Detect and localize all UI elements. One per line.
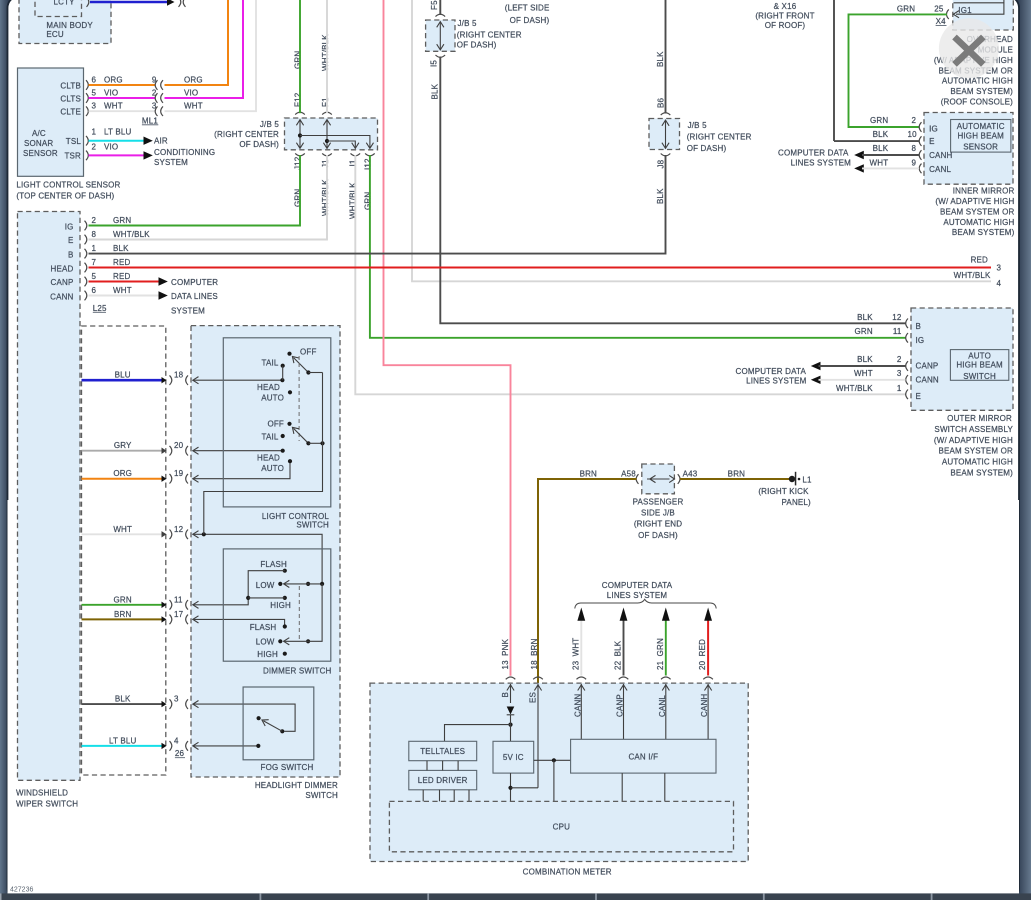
svg-text:ORG: ORG bbox=[184, 76, 203, 85]
svg-text:AUTO: AUTO bbox=[261, 394, 284, 403]
svg-text:E: E bbox=[68, 236, 74, 245]
svg-text:OF DASH): OF DASH) bbox=[457, 40, 497, 49]
svg-text:DIMMER SWITCH: DIMMER SWITCH bbox=[263, 667, 332, 676]
svg-text:HIGH BEAM: HIGH BEAM bbox=[957, 131, 1004, 140]
wire CANP red stub to computer data lines bbox=[89, 277, 168, 285]
svg-text:BLK: BLK bbox=[873, 144, 889, 153]
svg-text:12: 12 bbox=[174, 525, 184, 534]
svg-text:3: 3 bbox=[997, 264, 1002, 273]
svg-text:VIO: VIO bbox=[104, 89, 118, 98]
svg-text:E: E bbox=[916, 392, 922, 401]
outer mirror switch assembly box bbox=[906, 308, 1013, 410]
svg-text:ES: ES bbox=[529, 692, 538, 703]
wire GRN 25 overhead module to high beam sensor IG bbox=[849, 5, 948, 127]
svg-text:6: 6 bbox=[92, 76, 97, 85]
svg-text:8: 8 bbox=[92, 230, 97, 239]
bottom toolbar bbox=[0, 893, 1031, 900]
svg-text:SONAR: SONAR bbox=[24, 139, 53, 148]
svg-text:COMBINATION METER: COMBINATION METER bbox=[523, 867, 612, 876]
svg-text:OF DASH): OF DASH) bbox=[239, 140, 279, 149]
J/B5 no.1 internal bus F1 to J1/I1 bbox=[323, 120, 359, 149]
svg-text:FLASH: FLASH bbox=[260, 560, 287, 569]
wire BLK CANP stub outer mirror bbox=[811, 355, 906, 370]
svg-text:LINES SYSTEM: LINES SYSTEM bbox=[746, 377, 807, 386]
svg-text:LIGHT CONTROL SENSOR: LIGHT CONTROL SENSOR bbox=[16, 181, 120, 190]
svg-text:6: 6 bbox=[92, 286, 97, 295]
svg-text:SWITCH: SWITCH bbox=[296, 521, 329, 530]
svg-text:WHT: WHT bbox=[113, 525, 132, 534]
junction block J/B 5 no.3 (middle) bbox=[649, 97, 752, 168]
svg-text:LT BLU: LT BLU bbox=[109, 736, 137, 745]
svg-text:SWITCH: SWITCH bbox=[305, 791, 338, 800]
svg-text:BLK: BLK bbox=[656, 51, 665, 67]
svg-text:I5: I5 bbox=[430, 60, 439, 67]
svg-text:WHT/BLK: WHT/BLK bbox=[113, 230, 150, 239]
svg-text:CANN: CANN bbox=[573, 694, 582, 717]
svg-text:WHT: WHT bbox=[184, 102, 203, 111]
svg-text:PANEL): PANEL) bbox=[782, 498, 812, 507]
svg-text:CANL: CANL bbox=[658, 695, 667, 717]
wire GRN pin11 dimmer switch bbox=[82, 595, 249, 609]
svg-text:SIDE J/B: SIDE J/B bbox=[641, 509, 675, 518]
svg-text:RED: RED bbox=[113, 258, 130, 267]
svg-text:CONDITIONING: CONDITIONING bbox=[154, 148, 215, 157]
svg-text:(TOP CENTER OF DASH): (TOP CENTER OF DASH) bbox=[16, 191, 114, 200]
svg-text:(RIGHT FRONT: (RIGHT FRONT bbox=[755, 12, 814, 21]
light control switch mechanical link 1 bbox=[298, 356, 300, 441]
svg-text:7: 7 bbox=[92, 258, 97, 267]
junction block J/B 5 no.1 (right center of dash) bbox=[214, 112, 377, 155]
svg-text:L1: L1 bbox=[802, 475, 812, 484]
wire BLK pin3 fog switch bbox=[82, 695, 296, 732]
svg-text:MAIN BODY: MAIN BODY bbox=[46, 21, 93, 30]
svg-text:BLK: BLK bbox=[656, 188, 665, 204]
svg-text:1: 1 bbox=[92, 127, 97, 136]
svg-text:21 GRN: 21 GRN bbox=[656, 638, 665, 670]
wire LT BLU pin4 fog switch bbox=[82, 736, 259, 750]
svg-text:IG: IG bbox=[65, 222, 74, 231]
svg-text:WIPER SWITCH: WIPER SWITCH bbox=[16, 800, 78, 809]
svg-text:2: 2 bbox=[92, 143, 97, 152]
light control switch common feed line bbox=[204, 373, 323, 535]
svg-text:LOW: LOW bbox=[256, 581, 275, 590]
wire BLK CANH stub high beam sensor bbox=[854, 144, 919, 159]
svg-text:IG: IG bbox=[929, 125, 938, 134]
passenger side J/B box bbox=[633, 464, 684, 540]
svg-text:9: 9 bbox=[912, 159, 917, 168]
svg-text:AUTOMATIC HIGH: AUTOMATIC HIGH bbox=[942, 458, 1013, 467]
telltales box bbox=[409, 741, 477, 760]
close (X) button overlay bbox=[939, 18, 999, 78]
fog switch contacts bbox=[256, 716, 284, 748]
svg-text:CANP: CANP bbox=[916, 362, 939, 371]
svg-text:ORG: ORG bbox=[104, 76, 123, 85]
svg-text:17: 17 bbox=[174, 610, 184, 619]
svg-text:(RIGHT CENTER: (RIGHT CENTER bbox=[214, 130, 279, 139]
wire PNK to combination meter pin B bbox=[384, 0, 511, 676]
svg-text:SWITCH ASSEMBLY: SWITCH ASSEMBLY bbox=[934, 425, 1013, 434]
svg-text:CANP: CANP bbox=[51, 278, 74, 287]
wire TSL lt blu pin1 to A/C system bbox=[89, 127, 153, 145]
caption outer mirror switch assembly bbox=[934, 414, 1014, 477]
CAN I/F to cpu links bbox=[622, 773, 665, 801]
overhead module box bbox=[934, 0, 1013, 107]
windshield wiper switch box bbox=[16, 212, 87, 809]
svg-text:J/B 5: J/B 5 bbox=[458, 19, 478, 28]
headlight dimmer switch box bbox=[191, 326, 340, 800]
light control switch box bbox=[223, 338, 330, 530]
wire WHT/BLK to right edge pin 4 bbox=[412, 0, 1002, 288]
svg-text:COMPUTER DATA: COMPUTER DATA bbox=[736, 367, 807, 376]
fog switch box bbox=[243, 687, 314, 772]
light control switch wafer 2 contacts bbox=[257, 420, 325, 474]
svg-text:18: 18 bbox=[174, 371, 184, 380]
telltales to led driver links bbox=[427, 761, 458, 771]
dimmer switch box bbox=[223, 549, 331, 676]
svg-text:A/C: A/C bbox=[32, 129, 46, 138]
meter pin entry arrows bbox=[507, 684, 712, 788]
wire CLTB orange pin6 to ML1 pin9 bbox=[89, 0, 229, 90]
wire BLK above J/B5 no.3 bbox=[656, 0, 666, 114]
svg-text:20 RED: 20 RED bbox=[698, 639, 707, 670]
svg-text:13 PNK: 13 PNK bbox=[501, 638, 510, 669]
wire label 13 PNK pin B bbox=[501, 638, 515, 679]
wire WHT/BLK above J/B5 no.1 bbox=[321, 0, 330, 113]
svg-text:OFF: OFF bbox=[267, 420, 284, 429]
svg-text:OUTER MIRROR: OUTER MIRROR bbox=[947, 414, 1012, 423]
svg-text:CANH: CANH bbox=[700, 694, 709, 717]
node B junction to telltales bbox=[445, 715, 513, 742]
svg-text:J8: J8 bbox=[656, 159, 665, 168]
svg-text:WHT/BLK: WHT/BLK bbox=[321, 179, 330, 216]
A/C sonar sensor box bbox=[18, 68, 89, 176]
CPU box bbox=[389, 801, 733, 851]
wire WHT pin12 dimmer feed bbox=[82, 525, 323, 584]
svg-text:BRN: BRN bbox=[114, 610, 131, 619]
led driver to cpu links bbox=[423, 790, 469, 802]
wire BLK pin22 CANP bbox=[614, 608, 629, 680]
svg-text:FOG SWITCH: FOG SWITCH bbox=[261, 763, 314, 772]
svg-text:ML1: ML1 bbox=[142, 116, 158, 125]
svg-text:HIGH: HIGH bbox=[270, 601, 291, 610]
junction block J/B 5 no.2 (upper middle) bbox=[426, 0, 522, 67]
diode D1 on B line bbox=[507, 707, 515, 715]
svg-text:GRY: GRY bbox=[114, 441, 132, 450]
5V IC box bbox=[493, 741, 534, 773]
wire RED pin20 CANH bbox=[698, 608, 713, 680]
svg-text:CPU: CPU bbox=[553, 823, 570, 832]
wire label 18 BRN pin ES bbox=[530, 638, 543, 679]
svg-text:19: 19 bbox=[174, 469, 184, 478]
svg-text:CLTB: CLTB bbox=[60, 81, 81, 90]
svg-text:TSL: TSL bbox=[66, 137, 82, 146]
CAN I/F box bbox=[571, 739, 716, 773]
node air conditioning system bbox=[154, 137, 215, 168]
svg-text:GRN: GRN bbox=[113, 216, 131, 225]
svg-text:B6: B6 bbox=[656, 97, 665, 108]
svg-text:CANN: CANN bbox=[916, 376, 939, 385]
svg-text:AUTOMATIC HIGH: AUTOMATIC HIGH bbox=[943, 218, 1014, 227]
wire GRY pin20 light control switch bbox=[82, 441, 283, 455]
light control switch wafer 1 contacts bbox=[257, 348, 322, 403]
svg-text:3: 3 bbox=[174, 695, 179, 704]
svg-text:HIGH: HIGH bbox=[257, 650, 278, 659]
svg-text:20: 20 bbox=[174, 441, 184, 450]
svg-text:CLTS: CLTS bbox=[60, 94, 81, 103]
wire BLK to X16 right front of roof bbox=[755, 0, 834, 141]
wire BLK wiper switch B pin through J8 bbox=[89, 155, 666, 254]
wire BLK roof to high beam sensor E bbox=[834, 140, 919, 142]
svg-text:TSR: TSR bbox=[64, 152, 81, 161]
svg-text:A43: A43 bbox=[683, 469, 698, 478]
label WHT/BLK 1 pin E bbox=[836, 384, 902, 393]
svg-text:BEAM SYSTEM): BEAM SYSTEM) bbox=[950, 468, 1013, 477]
svg-text:BLK: BLK bbox=[430, 83, 439, 99]
dimmer switch wafer 1 contacts bbox=[246, 560, 324, 610]
svg-text:GRN: GRN bbox=[114, 595, 132, 604]
svg-text:BEAM SYSTEM OR: BEAM SYSTEM OR bbox=[940, 207, 1015, 216]
svg-text:& X16: & X16 bbox=[774, 2, 797, 11]
label left side of dash bbox=[505, 3, 550, 25]
wire BRN A43 to L1 right kick panel bbox=[680, 469, 789, 479]
svg-text:ECU: ECU bbox=[46, 30, 63, 39]
svg-text:SWITCH: SWITCH bbox=[963, 372, 996, 381]
wire TSR violet pin2 to A/C system bbox=[89, 143, 153, 160]
svg-text:VIO: VIO bbox=[104, 143, 118, 152]
wire LCTY blue bbox=[90, 0, 186, 7]
svg-text:HEADLIGHT DIMMER: HEADLIGHT DIMMER bbox=[255, 781, 338, 790]
svg-text:22 BLK: 22 BLK bbox=[614, 640, 623, 670]
meter internal pin names bbox=[501, 692, 709, 717]
wire number labels wiper switch pins bbox=[92, 216, 151, 295]
svg-text:SYSTEM: SYSTEM bbox=[171, 306, 205, 315]
svg-text:10: 10 bbox=[908, 130, 918, 139]
wire BLK from I5 to outer mirror B pin bbox=[430, 57, 905, 324]
wire labels GRN 2 / BLK 10 high beam sensor bbox=[870, 116, 917, 139]
svg-text:COMPUTER DATA: COMPUTER DATA bbox=[602, 581, 673, 590]
connector ML1 bbox=[142, 116, 158, 125]
wire labels BLK 12 / GRN 11 outer mirror bbox=[854, 313, 901, 336]
svg-text:11: 11 bbox=[174, 595, 183, 604]
svg-text:F1: F1 bbox=[321, 97, 330, 107]
svg-text:LED DRIVER: LED DRIVER bbox=[418, 776, 468, 785]
wire BRN pin17 dimmer switch bbox=[82, 610, 285, 627]
svg-text:2: 2 bbox=[912, 116, 917, 125]
wire WHT/BLK from J1 to wiper switch E pin bbox=[89, 155, 330, 240]
svg-text:B: B bbox=[916, 322, 922, 331]
svg-text:WHT: WHT bbox=[104, 102, 123, 111]
svg-text:OF DASH): OF DASH) bbox=[687, 144, 727, 153]
svg-text:HIGH BEAM: HIGH BEAM bbox=[956, 361, 1003, 370]
wire BLK above J/B5 no.2 bbox=[439, 0, 441, 15]
svg-text:AUTOMATIC HIGH: AUTOMATIC HIGH bbox=[942, 77, 1013, 86]
svg-text:OFF: OFF bbox=[300, 348, 317, 357]
svg-text:GRN: GRN bbox=[870, 116, 888, 125]
svg-text:1: 1 bbox=[897, 384, 902, 393]
svg-text:AUTO: AUTO bbox=[261, 464, 284, 473]
svg-text:J1: J1 bbox=[321, 159, 330, 168]
svg-text:AUTO: AUTO bbox=[968, 352, 991, 361]
svg-text:DATA LINES: DATA LINES bbox=[171, 292, 218, 301]
svg-text:I12: I12 bbox=[363, 158, 372, 170]
svg-text:26: 26 bbox=[175, 749, 185, 758]
svg-text:OF DASH): OF DASH) bbox=[510, 16, 550, 25]
wire GRN from I12 to outer mirror IG pin bbox=[363, 155, 905, 338]
svg-text:HEAD: HEAD bbox=[257, 453, 280, 462]
svg-text:J/B 5: J/B 5 bbox=[260, 120, 280, 129]
svg-text:GRN: GRN bbox=[854, 327, 872, 336]
connector X4 label bbox=[936, 17, 947, 26]
connector L25 bbox=[93, 304, 107, 313]
automatic high beam sensor box bbox=[919, 113, 1013, 185]
splice L1 bbox=[758, 472, 812, 507]
svg-text:WHT: WHT bbox=[113, 286, 132, 295]
svg-text:5: 5 bbox=[92, 272, 97, 281]
combination meter box bbox=[370, 683, 748, 876]
svg-text:427236: 427236 bbox=[10, 887, 33, 894]
caption light control sensor bbox=[16, 181, 120, 201]
svg-text:GRN: GRN bbox=[363, 192, 372, 210]
svg-text:SENSOR: SENSOR bbox=[23, 149, 58, 158]
node computer data lines system (inner mirror) bbox=[778, 148, 851, 167]
wire GRN above J/B5 no.1 bbox=[293, 0, 302, 113]
svg-text:BLK: BLK bbox=[113, 244, 129, 253]
svg-text:BRN: BRN bbox=[728, 469, 745, 478]
node ES junction below 5V IC bbox=[508, 773, 538, 801]
svg-text:LINES SYSTEM: LINES SYSTEM bbox=[607, 591, 668, 600]
pin LCTY of main body ECU bbox=[54, 0, 89, 7]
svg-text:TAIL: TAIL bbox=[261, 359, 278, 368]
right frame band bbox=[1017, 0, 1031, 900]
wire CLTE white pin3 to ML1 pin3 bbox=[89, 0, 257, 116]
svg-text:E: E bbox=[929, 137, 935, 146]
wire CANN wht stub to computer data lines bbox=[89, 291, 168, 299]
svg-text:(W/ ADAPTIVE HIGH: (W/ ADAPTIVE HIGH bbox=[934, 436, 1013, 445]
main body ECU box bbox=[19, 0, 111, 44]
svg-text:SYSTEM: SYSTEM bbox=[154, 158, 188, 167]
svg-text:5: 5 bbox=[92, 89, 97, 98]
svg-text:A58: A58 bbox=[621, 469, 636, 478]
svg-text:25: 25 bbox=[934, 5, 944, 14]
svg-text:(W/ ADAPTIVE HIGH: (W/ ADAPTIVE HIGH bbox=[935, 197, 1014, 206]
svg-text:(RIGHT CENTER: (RIGHT CENTER bbox=[457, 31, 522, 40]
node computer data lines system (outer mirror) bbox=[736, 367, 807, 386]
svg-text:BEAM SYSTEM OR: BEAM SYSTEM OR bbox=[938, 447, 1013, 456]
wire WHT CANN stub outer mirror bbox=[811, 369, 906, 384]
svg-text:WHT: WHT bbox=[870, 159, 889, 168]
svg-text:CAN I/F: CAN I/F bbox=[628, 752, 658, 761]
svg-text:HEAD: HEAD bbox=[51, 265, 74, 274]
svg-text:AIR: AIR bbox=[154, 137, 168, 146]
pin labels of J/B5 no.1 bbox=[293, 92, 372, 170]
svg-text:TELLTALES: TELLTALES bbox=[420, 747, 465, 756]
left frame band bbox=[0, 0, 9, 900]
wire WHT CANL stub high beam sensor bbox=[854, 159, 919, 173]
svg-text:TAIL: TAIL bbox=[261, 433, 278, 442]
svg-text:BLK: BLK bbox=[873, 130, 889, 139]
svg-text:4: 4 bbox=[174, 736, 179, 745]
svg-text:BLK: BLK bbox=[857, 355, 873, 364]
svg-text:HEAD: HEAD bbox=[257, 383, 280, 392]
wire WHT/BLK from I1 to outer mirror E pin bbox=[349, 155, 906, 394]
wire ORG pin19 light control switch bbox=[82, 461, 291, 483]
svg-text:J/B 5: J/B 5 bbox=[688, 121, 708, 130]
wiper switch connector strip box bbox=[82, 326, 166, 775]
svg-text:BEAM SYSTEM): BEAM SYSTEM) bbox=[950, 87, 1013, 96]
svg-text:12: 12 bbox=[892, 313, 902, 322]
wire BLU pin18 light control switch bbox=[82, 371, 283, 385]
svg-text:BLU: BLU bbox=[115, 371, 131, 380]
svg-text:BLK: BLK bbox=[857, 313, 873, 322]
svg-text:WHT/BLK: WHT/BLK bbox=[836, 384, 873, 393]
svg-text:BLK: BLK bbox=[115, 695, 131, 704]
svg-text:B: B bbox=[68, 250, 74, 259]
svg-text:AUTOMATIC: AUTOMATIC bbox=[957, 122, 1005, 131]
node computer data lines system (meter) bbox=[602, 581, 673, 600]
svg-text:3: 3 bbox=[92, 102, 97, 111]
pin IG1 of overhead module bbox=[947, 0, 1004, 19]
wire CLTS violet pin5 to ML1 pin2 bbox=[89, 0, 244, 103]
svg-text:WHT: WHT bbox=[854, 369, 873, 378]
svg-text:RED: RED bbox=[113, 272, 130, 281]
svg-text:GRN: GRN bbox=[897, 5, 915, 14]
caption inner mirror bbox=[935, 187, 1014, 238]
svg-text:LOW: LOW bbox=[256, 637, 275, 646]
svg-text:LINES SYSTEM: LINES SYSTEM bbox=[791, 158, 852, 167]
svg-text:BEAM SYSTEM): BEAM SYSTEM) bbox=[952, 228, 1015, 237]
svg-text:CANP: CANP bbox=[616, 694, 625, 717]
wire GRN pin21 CANL bbox=[656, 608, 671, 680]
svg-text:WHT/BLK: WHT/BLK bbox=[954, 271, 991, 280]
5V IC to CAN I/F link bbox=[534, 758, 571, 801]
svg-text:(LEFT SIDE: (LEFT SIDE bbox=[505, 3, 550, 12]
svg-text:(RIGHT CENTER: (RIGHT CENTER bbox=[687, 133, 752, 142]
svg-text:ORG: ORG bbox=[113, 469, 132, 478]
svg-text:3: 3 bbox=[897, 369, 902, 378]
svg-text:1: 1 bbox=[92, 244, 97, 253]
wire WHT pin23 CANN bbox=[571, 608, 586, 680]
svg-text:18 BRN: 18 BRN bbox=[530, 638, 539, 669]
led driver box bbox=[409, 770, 477, 789]
svg-text:CLTE: CLTE bbox=[60, 108, 81, 117]
svg-text:IG: IG bbox=[916, 336, 925, 345]
dimmer switch wafer 2 contacts bbox=[250, 584, 322, 659]
svg-text:INNER MIRROR: INNER MIRROR bbox=[953, 187, 1015, 196]
svg-text:L25: L25 bbox=[93, 304, 107, 313]
svg-text:WHT/BLK: WHT/BLK bbox=[321, 34, 330, 71]
wire HEAD red to right edge pin 3 bbox=[89, 256, 1002, 273]
svg-text:FLASH: FLASH bbox=[250, 623, 277, 632]
svg-text:LT BLU: LT BLU bbox=[104, 127, 132, 136]
wire GRN from J12 to wiper switch IG pin bbox=[89, 155, 303, 226]
svg-text:8: 8 bbox=[912, 144, 917, 153]
svg-text:11: 11 bbox=[893, 327, 902, 336]
svg-text:OF ROOF): OF ROOF) bbox=[765, 21, 806, 30]
svg-text:OF DASH): OF DASH) bbox=[638, 531, 678, 540]
svg-text:X4: X4 bbox=[936, 17, 947, 26]
wire BRN meter ES to passenger J/B A58 bbox=[538, 469, 637, 683]
svg-text:COMPUTER: COMPUTER bbox=[171, 278, 218, 287]
svg-text:BRN: BRN bbox=[580, 469, 597, 478]
node computer data lines system (left) bbox=[171, 278, 218, 315]
svg-text:CANN: CANN bbox=[50, 293, 73, 302]
svg-text:COMPUTER DATA: COMPUTER DATA bbox=[778, 148, 849, 157]
svg-text:2: 2 bbox=[897, 355, 902, 364]
svg-text:B: B bbox=[501, 692, 510, 698]
svg-text:WINDSHIELD: WINDSHIELD bbox=[16, 789, 68, 798]
brace over CAN wires bbox=[575, 599, 716, 608]
svg-text:RED: RED bbox=[971, 256, 988, 265]
